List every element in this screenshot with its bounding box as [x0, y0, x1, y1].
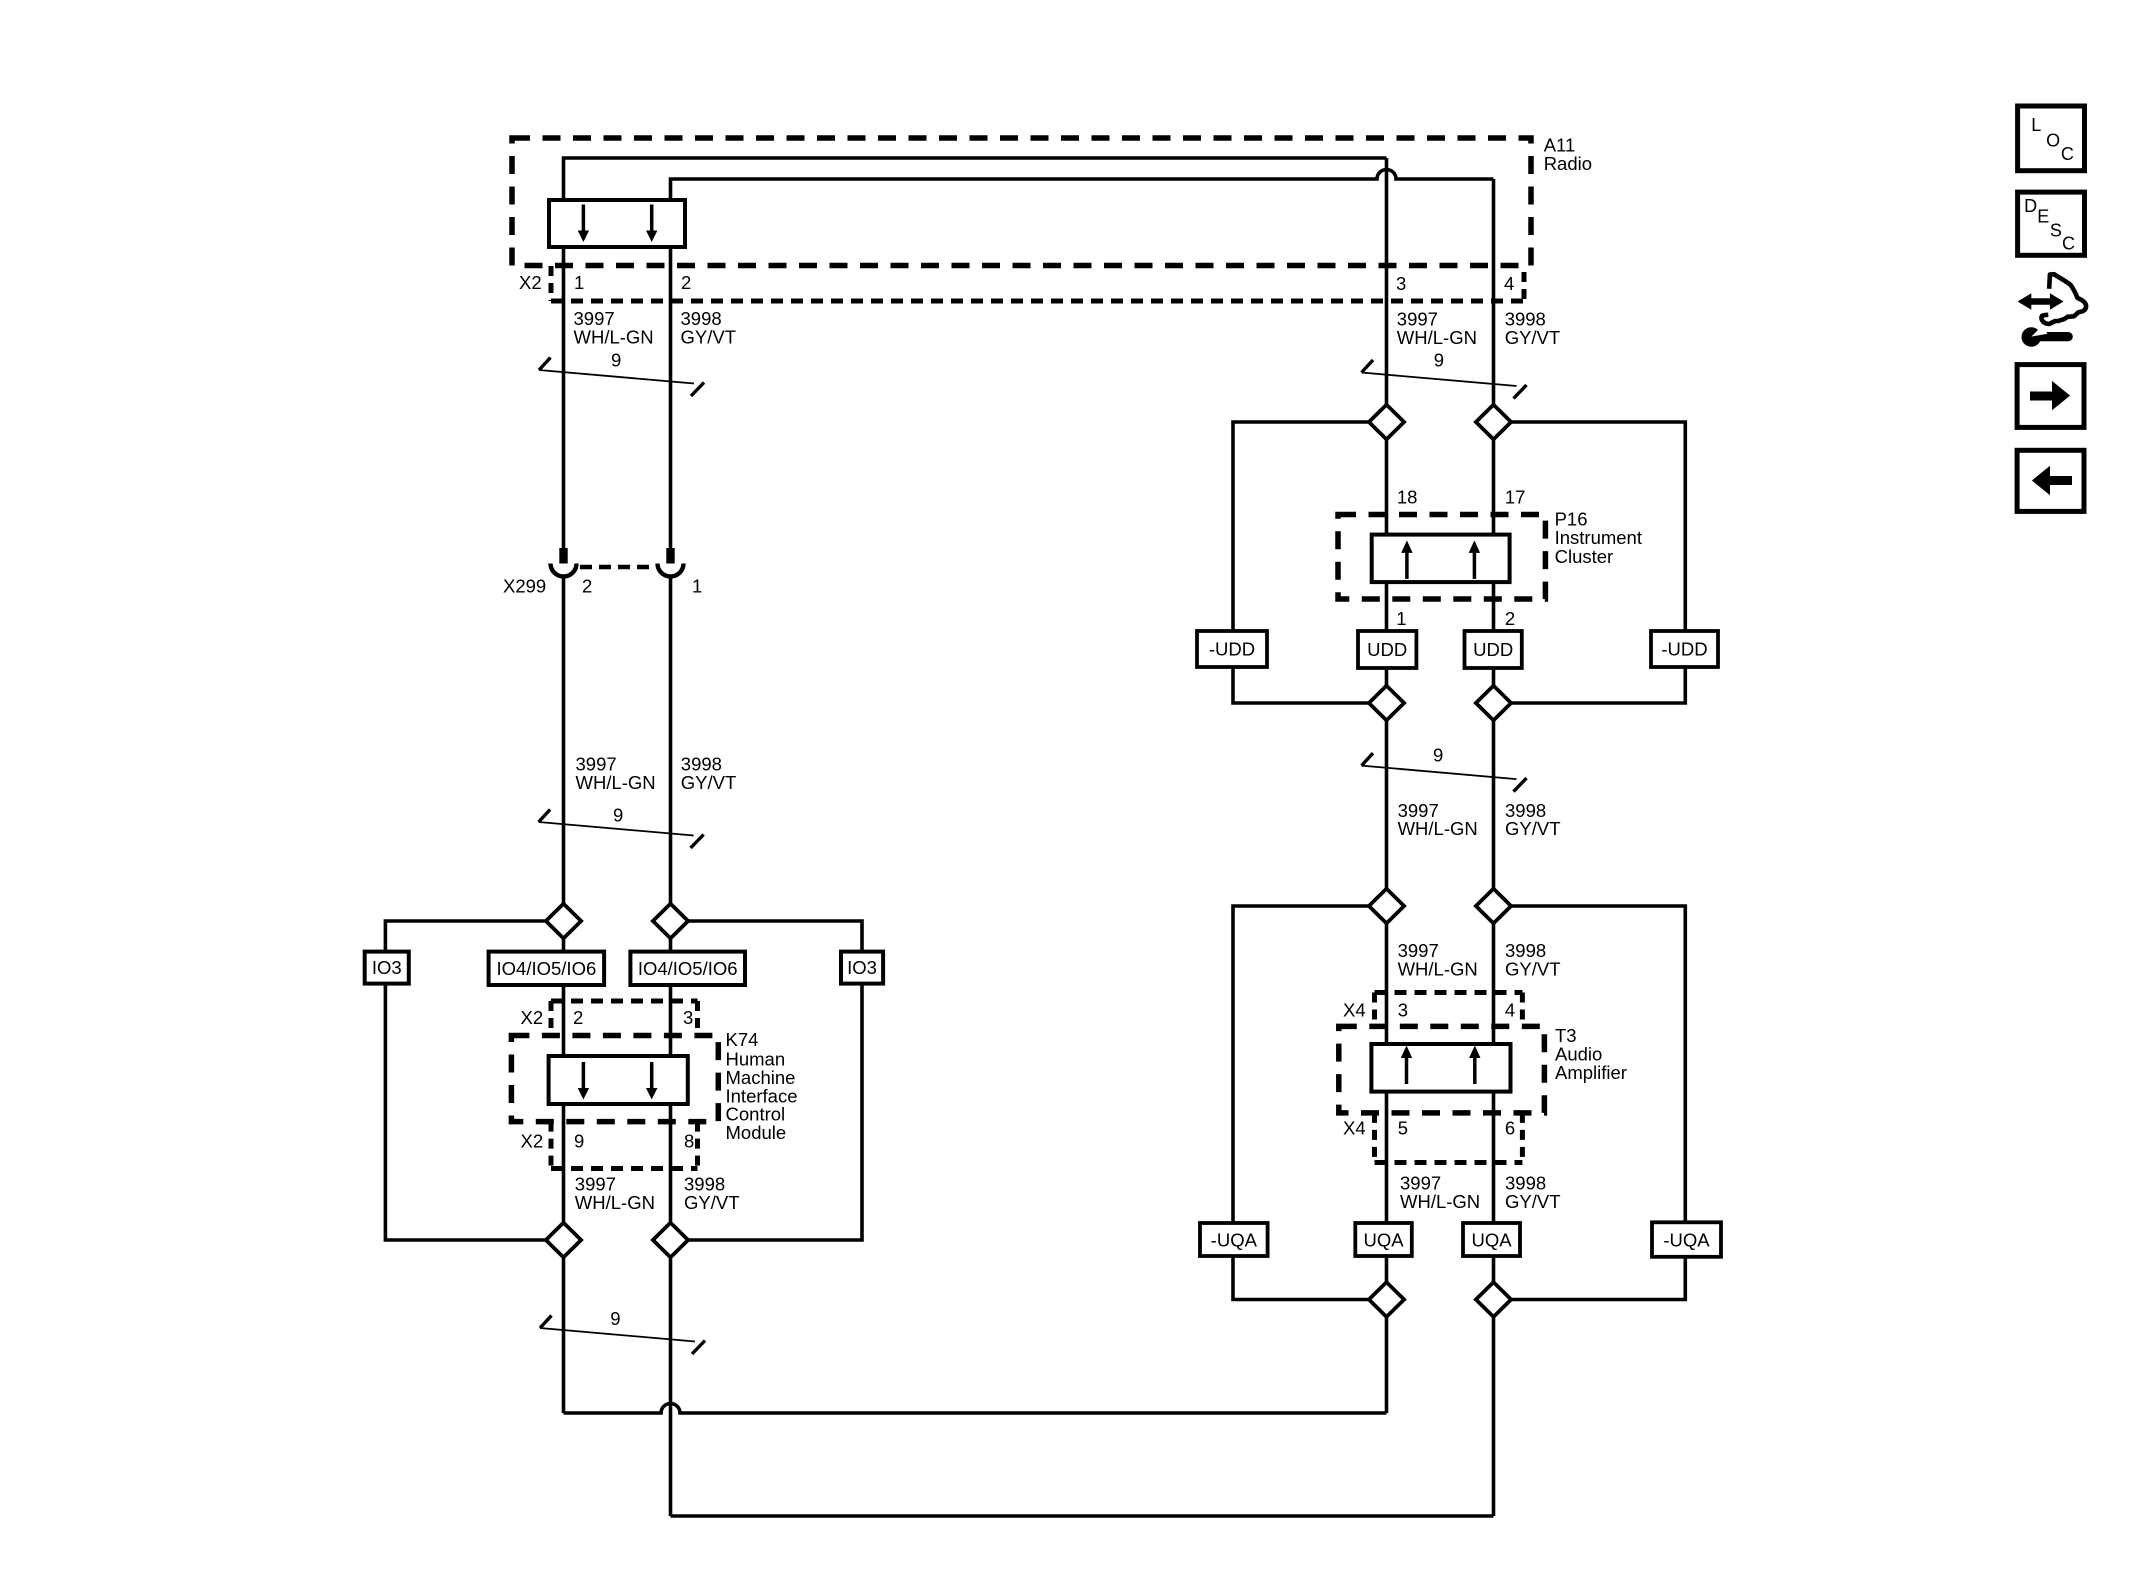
- label IO4/IO5/IO6 (left wire): [497, 958, 597, 979]
- wire IO3 right loop (bottom): [688, 985, 862, 1241]
- svg-text:O: O: [2046, 130, 2060, 150]
- wire 3997 below K74: [562, 1104, 566, 1223]
- connector X2 (K74 top) left edge: [549, 1001, 554, 1036]
- net box IO4/IO5/IO6 (right wire): [630, 952, 745, 985]
- wire -UQA right loop return: [1511, 1257, 1685, 1300]
- svg-text:8: 8: [684, 1131, 694, 1152]
- svg-text:X2: X2: [519, 272, 542, 293]
- svg-text:4: 4: [1504, 273, 1514, 294]
- splice node (3997 above P16): [1369, 405, 1404, 440]
- connector X2 (K74 top) dotted line: [551, 999, 698, 1004]
- twisted pair symbol (right pair, top): [1362, 360, 1527, 399]
- wire 3997 top to P16 splice: [1385, 158, 1389, 405]
- svg-text:Amplifier: Amplifier: [1555, 1062, 1627, 1083]
- label wire 3997 WH/L-GN (below T3): [1400, 1173, 1480, 1213]
- label UDD (right): [1473, 639, 1513, 660]
- T3 block arrow (pin5, up): [1401, 1046, 1412, 1085]
- svg-text:GY/VT: GY/VT: [1505, 818, 1561, 839]
- splice node (3998 below T3): [1476, 1282, 1511, 1317]
- wire 3998 below T3: [1492, 1092, 1496, 1223]
- icon box back arrow: [2017, 450, 2084, 511]
- net box -UQA (left): [1200, 1223, 1268, 1256]
- module K74 dashed box: [511, 1036, 718, 1122]
- label X2 (K74 bottom): [521, 1131, 544, 1152]
- radio internal connector block: [549, 200, 685, 247]
- radio block arrow (pin2, down): [646, 205, 657, 243]
- svg-text:UQA: UQA: [1363, 1230, 1404, 1251]
- svg-text:-UDD: -UDD: [1209, 639, 1255, 660]
- label IO3 (left): [372, 957, 402, 978]
- wire branch to IO3 left (top): [385, 921, 546, 952]
- wire -UDD right loop return: [1511, 667, 1685, 703]
- wire 3998 segment radio to X299: [669, 247, 673, 548]
- svg-text:WH/L-GN: WH/L-GN: [1397, 327, 1477, 348]
- twisted pair symbol (right pair, middle): [1362, 753, 1527, 792]
- svg-text:Module: Module: [726, 1122, 787, 1143]
- label X2 (radio): [519, 272, 542, 293]
- label wire 3998 GY/VT (above T3): [1505, 940, 1561, 980]
- connector X4 (T3 top) right edge: [1520, 993, 1525, 1027]
- label X4 (T3 top): [1343, 1000, 1366, 1021]
- icon vehicle outline with double arrow and wrench: [2018, 274, 2087, 347]
- net box IO3 (right): [841, 952, 883, 984]
- connector X2 (K74 bottom) dotted line: [551, 1166, 698, 1171]
- label wire 3998 GY/VT (below K74): [684, 1174, 740, 1214]
- pin 9 (K74 X2 bottom): [574, 1131, 584, 1152]
- P16 block arrow (pin18, up): [1401, 540, 1412, 579]
- wire 3997 splice to P16: [1385, 439, 1389, 535]
- svg-text:2: 2: [681, 272, 691, 293]
- svg-text:E: E: [2037, 207, 2049, 227]
- label 9 (left pair, middle): [613, 805, 623, 826]
- module A11 Radio dashed box: [512, 138, 1531, 266]
- pin 6 (T3 X4 bottom): [1505, 1118, 1515, 1139]
- pin 3 (radio X2): [1396, 273, 1406, 294]
- svg-text:GY/VT: GY/VT: [1505, 327, 1561, 348]
- svg-text:WH/L-GN: WH/L-GN: [575, 1192, 655, 1213]
- pin 2 (K74 X2 top): [573, 1007, 583, 1028]
- svg-text:1: 1: [692, 576, 702, 597]
- svg-text:9: 9: [574, 1131, 584, 1152]
- pin 18 (P16): [1397, 487, 1418, 508]
- label wire 3997 WH/L-GN (above T3): [1398, 940, 1478, 980]
- pin 3 (T3 X4 top): [1398, 1000, 1408, 1021]
- svg-text:WH/L-GN: WH/L-GN: [1398, 959, 1478, 980]
- svg-text:WH/L-GN: WH/L-GN: [574, 327, 654, 348]
- connector X2 (K74 bottom) right edge: [695, 1122, 700, 1169]
- net box IO4/IO5/IO6 (left wire): [489, 952, 604, 985]
- label IO4/IO5/IO6 (right wire): [638, 958, 738, 979]
- wire 3998 splice to K74: [669, 938, 673, 952]
- radio block arrow (pin1, down): [578, 205, 589, 243]
- svg-text:18: 18: [1397, 487, 1418, 508]
- connector X2 (K74 bottom) left edge: [549, 1122, 554, 1169]
- connector X2 (radio) right edge: [1522, 272, 1527, 301]
- svg-text:5: 5: [1398, 1118, 1408, 1139]
- svg-text:9: 9: [1433, 745, 1443, 766]
- svg-text:IO3: IO3: [372, 957, 402, 978]
- svg-text:-UQA: -UQA: [1211, 1230, 1258, 1251]
- label T3 Audio Amplifier: [1555, 1025, 1627, 1083]
- svg-text:Cluster: Cluster: [1555, 546, 1614, 567]
- wire 3997 segment X299 to K74 splice: [562, 578, 566, 905]
- label -UQA (right): [1663, 1230, 1710, 1251]
- wire 3998 UDD to splice: [1492, 668, 1496, 686]
- wire 3998 P16 to UDD: [1492, 582, 1496, 631]
- inline connector X299 pin 2 symbol: [551, 548, 577, 577]
- label wire 3997 WH/L-GN (below K74): [575, 1174, 655, 1214]
- label 9 (left pair, bottom): [610, 1308, 620, 1329]
- label wire 3997 WH/L-GN (mid left): [576, 754, 656, 794]
- svg-text:S: S: [2050, 220, 2062, 240]
- wire 3998 UQA to splice: [1492, 1256, 1496, 1282]
- splice node (3998 below P16): [1476, 686, 1511, 721]
- svg-text:UDD: UDD: [1367, 639, 1407, 660]
- connector X2 (K74 top) right edge: [695, 1001, 700, 1036]
- wire 3997 segment radio to X299: [562, 247, 566, 548]
- wire 3998 top to P16 splice: [1492, 179, 1496, 405]
- wire 3997 T3 splice to bottom jumper: [1385, 1317, 1389, 1413]
- svg-text:9: 9: [1434, 350, 1444, 371]
- svg-text:3: 3: [1398, 1000, 1408, 1021]
- svg-text:-UDD: -UDD: [1661, 639, 1707, 660]
- module T3 dashed box: [1339, 1026, 1545, 1113]
- T3 block arrow (pin6, up): [1469, 1046, 1480, 1085]
- label P16 Instrument Cluster: [1555, 508, 1642, 567]
- svg-text:IO4/IO5/IO6: IO4/IO5/IO6: [497, 958, 597, 979]
- net box -UDD (right): [1651, 631, 1718, 667]
- wire 3998 P16 to T3: [1492, 720, 1496, 888]
- label -UQA (left): [1211, 1230, 1258, 1251]
- pin 17 (P16): [1505, 487, 1526, 508]
- svg-text:WH/L-GN: WH/L-GN: [1398, 818, 1478, 839]
- splice node (3997 below P16): [1369, 686, 1404, 721]
- wire 3997 P16 to T3: [1385, 720, 1389, 888]
- wire 3998 segment X299 to K74 splice: [669, 578, 673, 905]
- wire branch to -UDD right: [1511, 422, 1685, 631]
- connector X2 (radio) bottom dotted line: [551, 299, 1524, 304]
- icon letters DESC: [2024, 196, 2075, 253]
- svg-text:2: 2: [1505, 608, 1515, 629]
- icon letters LOC: [2031, 115, 2074, 164]
- svg-text:X299: X299: [503, 576, 546, 597]
- net box -UDD (left): [1197, 631, 1267, 667]
- wire branch to -UDD left: [1233, 422, 1369, 631]
- svg-text:X2: X2: [521, 1007, 544, 1028]
- wire 3997 UQA to splice: [1385, 1256, 1389, 1282]
- icon box forward arrow: [2017, 365, 2084, 428]
- connector X4 (T3 bottom) right edge: [1520, 1113, 1525, 1163]
- label wire 3997 WH/L-GN (below radio pin1): [574, 308, 654, 348]
- pin 3 (K74 X2 top): [683, 1007, 693, 1028]
- svg-text:GY/VT: GY/VT: [681, 772, 737, 793]
- splice node (3998 above K74): [653, 904, 688, 939]
- K74 block arrow (pin9, down): [578, 1062, 589, 1100]
- splice node (3997 below K74): [546, 1223, 581, 1258]
- pin 4 (T3 X4 top): [1505, 1000, 1515, 1021]
- pin 1 (radio X2): [574, 272, 584, 293]
- connector X4 (T3 top) left edge: [1372, 993, 1377, 1027]
- icon box LOC: [2018, 106, 2085, 171]
- pin 5 (T3 X4 bottom): [1398, 1118, 1408, 1139]
- icon back arrow: [2032, 466, 2072, 495]
- label wire 3998 GY/VT (below T3): [1505, 1173, 1561, 1213]
- svg-text:4: 4: [1505, 1000, 1515, 1021]
- twisted pair symbol (left pair, middle): [539, 810, 704, 849]
- splice node (3997 above K74): [546, 904, 581, 939]
- svg-text:IO3: IO3: [847, 957, 877, 978]
- label X2 (K74 top): [521, 1007, 544, 1028]
- svg-text:X2: X2: [521, 1131, 544, 1152]
- svg-text:K74: K74: [726, 1029, 759, 1050]
- wire 3997 below T3: [1385, 1092, 1389, 1223]
- wire branch to -UQA right: [1511, 906, 1685, 1222]
- connector X4 (T3 top) dotted line: [1375, 990, 1523, 995]
- connector X4 (T3 bottom) dotted line: [1375, 1160, 1523, 1165]
- label wire 3998 GY/VT (mid right): [1505, 800, 1561, 839]
- svg-text:D: D: [2024, 196, 2037, 216]
- svg-text:1: 1: [1396, 608, 1406, 629]
- connector X2 (radio) left edge: [549, 266, 554, 301]
- label wire 3997 WH/L-GN (below radio pin3): [1397, 309, 1477, 349]
- label IO3 (right): [847, 957, 877, 978]
- wire 3998 splice to T3: [1492, 924, 1496, 1045]
- splice node (3998 above P16): [1476, 405, 1511, 440]
- wire 3998 bottom jumper: [671, 1514, 1494, 1518]
- pin 2 (P16): [1505, 608, 1515, 629]
- icon forward arrow: [2030, 381, 2070, 410]
- svg-text:GY/VT: GY/VT: [1505, 959, 1561, 980]
- pin 2 (X299): [582, 576, 592, 597]
- wire IO3 left loop (bottom): [385, 985, 546, 1241]
- svg-text:GY/VT: GY/VT: [684, 1192, 740, 1213]
- label K74 Human Machine Interface Control Module: [726, 1029, 798, 1143]
- svg-text:17: 17: [1505, 487, 1526, 508]
- wire branch to -UQA left: [1233, 906, 1369, 1222]
- T3 internal connector block: [1371, 1044, 1510, 1092]
- svg-text:Radio: Radio: [1544, 153, 1592, 174]
- wire 3998 radio top jumper (hop over 3997): [671, 170, 1494, 201]
- wire 3997 UDD to splice: [1385, 668, 1389, 686]
- label UDD (left): [1367, 639, 1407, 660]
- wire 3997 to bottom jumper: [562, 1257, 566, 1413]
- svg-text:9: 9: [613, 805, 623, 826]
- label X4 (T3 bottom): [1343, 1118, 1366, 1139]
- pin 8 (K74 X2 bottom): [684, 1131, 694, 1152]
- pin 1 (X299): [692, 576, 702, 597]
- svg-text:WH/L-GN: WH/L-GN: [576, 772, 656, 793]
- svg-text:C: C: [2061, 144, 2074, 164]
- label 9 (left pair, top): [611, 349, 621, 370]
- wire 3998 to bottom jumper: [669, 1257, 673, 1516]
- splice node (3998 below K74): [653, 1223, 688, 1258]
- svg-text:X4: X4: [1343, 1000, 1366, 1021]
- svg-text:L: L: [2031, 115, 2041, 135]
- splice node (3997 below T3): [1369, 1282, 1404, 1317]
- wire -UQA left loop return: [1233, 1256, 1369, 1300]
- net box -UQA (right): [1652, 1222, 1721, 1257]
- splice node (3998 above T3): [1476, 889, 1511, 924]
- pin 1 (P16): [1396, 608, 1406, 629]
- svg-text:GY/VT: GY/VT: [681, 327, 737, 348]
- wire 3998 IO box to K74 block: [669, 985, 673, 1056]
- label wire 3998 GY/VT (below radio pin4): [1505, 309, 1561, 349]
- label -UDD (right): [1661, 639, 1707, 660]
- pin 2 (radio X2): [681, 272, 691, 293]
- svg-text:6: 6: [1505, 1118, 1515, 1139]
- svg-text:3: 3: [1396, 273, 1406, 294]
- label UQA (right): [1471, 1230, 1512, 1251]
- label -UDD (left): [1209, 639, 1255, 660]
- label X299: [503, 576, 546, 597]
- svg-text:2: 2: [582, 576, 592, 597]
- module P16 dashed box: [1338, 515, 1545, 600]
- twisted pair symbol (left pair, bottom): [540, 1316, 705, 1355]
- svg-text:9: 9: [611, 349, 621, 370]
- svg-text:WH/L-GN: WH/L-GN: [1400, 1191, 1480, 1212]
- wire branch to IO3 right (top): [688, 921, 862, 952]
- connector X4 (T3 bottom) left edge: [1372, 1113, 1377, 1163]
- label wire 3998 GY/VT (mid left): [681, 754, 737, 794]
- svg-text:IO4/IO5/IO6: IO4/IO5/IO6: [638, 958, 738, 979]
- svg-text:UDD: UDD: [1473, 639, 1513, 660]
- twisted pair symbol (left pair, top): [539, 358, 704, 397]
- label A11: [1544, 135, 1592, 175]
- label 9 (right pair, top): [1434, 350, 1444, 371]
- icon box DESC: [2018, 192, 2085, 255]
- wire 3997 splice to K74: [562, 938, 566, 952]
- wire 3997 radio top jumper: [564, 158, 1387, 200]
- pin 4 (radio X2): [1504, 273, 1514, 294]
- net box UDD (right): [1465, 631, 1522, 668]
- label UQA (left): [1363, 1230, 1404, 1251]
- P16 internal connector block: [1372, 535, 1510, 583]
- inline connector X299 pin 1 symbol: [658, 548, 684, 577]
- K74 block arrow (pin8, down): [646, 1062, 657, 1100]
- net box IO3 (left): [365, 952, 409, 984]
- label wire 3998 GY/VT (below radio pin2): [681, 308, 737, 348]
- net box UDD (left): [1358, 631, 1416, 668]
- splice node (3997 above T3): [1369, 889, 1404, 924]
- svg-text:UQA: UQA: [1471, 1230, 1512, 1251]
- svg-text:-UQA: -UQA: [1663, 1230, 1710, 1251]
- wire 3997 bottom jumper (hop over 3998): [564, 1404, 1387, 1414]
- net box UQA (right): [1463, 1223, 1520, 1256]
- label wire 3997 WH/L-GN (mid right): [1398, 800, 1478, 839]
- svg-text:2: 2: [573, 1007, 583, 1028]
- connector X299 dashed link: [580, 565, 654, 570]
- svg-text:1: 1: [574, 272, 584, 293]
- wire 3997 IO box to K74 block: [562, 985, 566, 1056]
- wire 3997 P16 to UDD: [1385, 582, 1389, 631]
- svg-text:3: 3: [683, 1007, 693, 1028]
- svg-text:9: 9: [610, 1308, 620, 1329]
- net box UQA (left): [1355, 1223, 1412, 1256]
- wire 3998 splice to P16: [1492, 439, 1496, 535]
- wire 3998 below K74: [669, 1104, 673, 1223]
- wire 3997 splice to T3: [1385, 924, 1389, 1045]
- label 9 (right pair, middle): [1433, 745, 1443, 766]
- wire 3998 T3 splice to bottom jumper: [1492, 1317, 1496, 1516]
- K74 internal connector block: [549, 1056, 688, 1104]
- svg-text:X4: X4: [1343, 1118, 1366, 1139]
- wire -UDD left loop return: [1233, 667, 1369, 703]
- P16 block arrow (pin17, up): [1469, 540, 1480, 579]
- svg-text:GY/VT: GY/VT: [1505, 1191, 1561, 1212]
- svg-text:C: C: [2062, 234, 2075, 254]
